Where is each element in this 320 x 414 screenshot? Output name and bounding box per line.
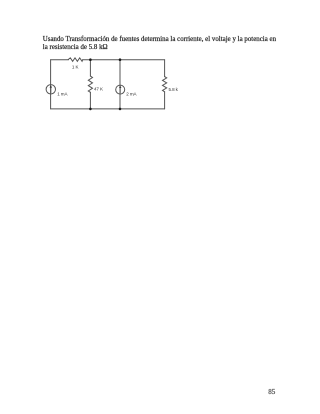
value label 1 K	[72, 65, 79, 70]
current source I1 1 mA	[46, 85, 55, 94]
svg-text:47 K: 47 K	[94, 86, 103, 91]
svg-text:5.8 k: 5.8 k	[169, 87, 179, 92]
node dot bottom G	[119, 108, 122, 111]
wire: bottom	[51, 108, 165, 110]
value label 2 mA	[126, 92, 136, 97]
node dot bottom F	[89, 108, 92, 111]
page number	[268, 388, 275, 396]
value label 5.8 k	[169, 87, 179, 92]
wire: top segment from 1 K to node B	[83, 59, 91, 61]
wire: 2 mA branch	[119, 60, 121, 109]
resistor 5.8 k	[163, 77, 167, 92]
wire: 47 K branch top lead	[89, 60, 91, 76]
resistor 1 K	[68, 58, 83, 61]
svg-text:2 mA: 2 mA	[126, 92, 136, 97]
svg-text:1 K: 1 K	[72, 65, 79, 70]
wire: top segment node C to top-right corner	[120, 59, 165, 61]
value label 1 mA	[57, 92, 67, 97]
wire: top segment node B to node C	[90, 59, 120, 61]
resistor 47 K	[88, 76, 92, 92]
problem statement text line 2	[43, 44, 108, 52]
wire: 47 K branch bottom lead	[89, 92, 91, 109]
problem statement text line 1	[43, 36, 276, 44]
wire: left branch	[50, 60, 52, 109]
value label 47 K	[94, 86, 103, 91]
current source I2 2 mA	[116, 85, 125, 94]
wire: right branch bottom lead	[164, 92, 166, 109]
svg-text:1 mA: 1 mA	[57, 92, 67, 97]
wire: top-left segment	[51, 59, 69, 61]
wire: right branch top lead	[164, 60, 166, 77]
node dot top B	[89, 58, 92, 61]
node dot top C	[119, 58, 122, 61]
